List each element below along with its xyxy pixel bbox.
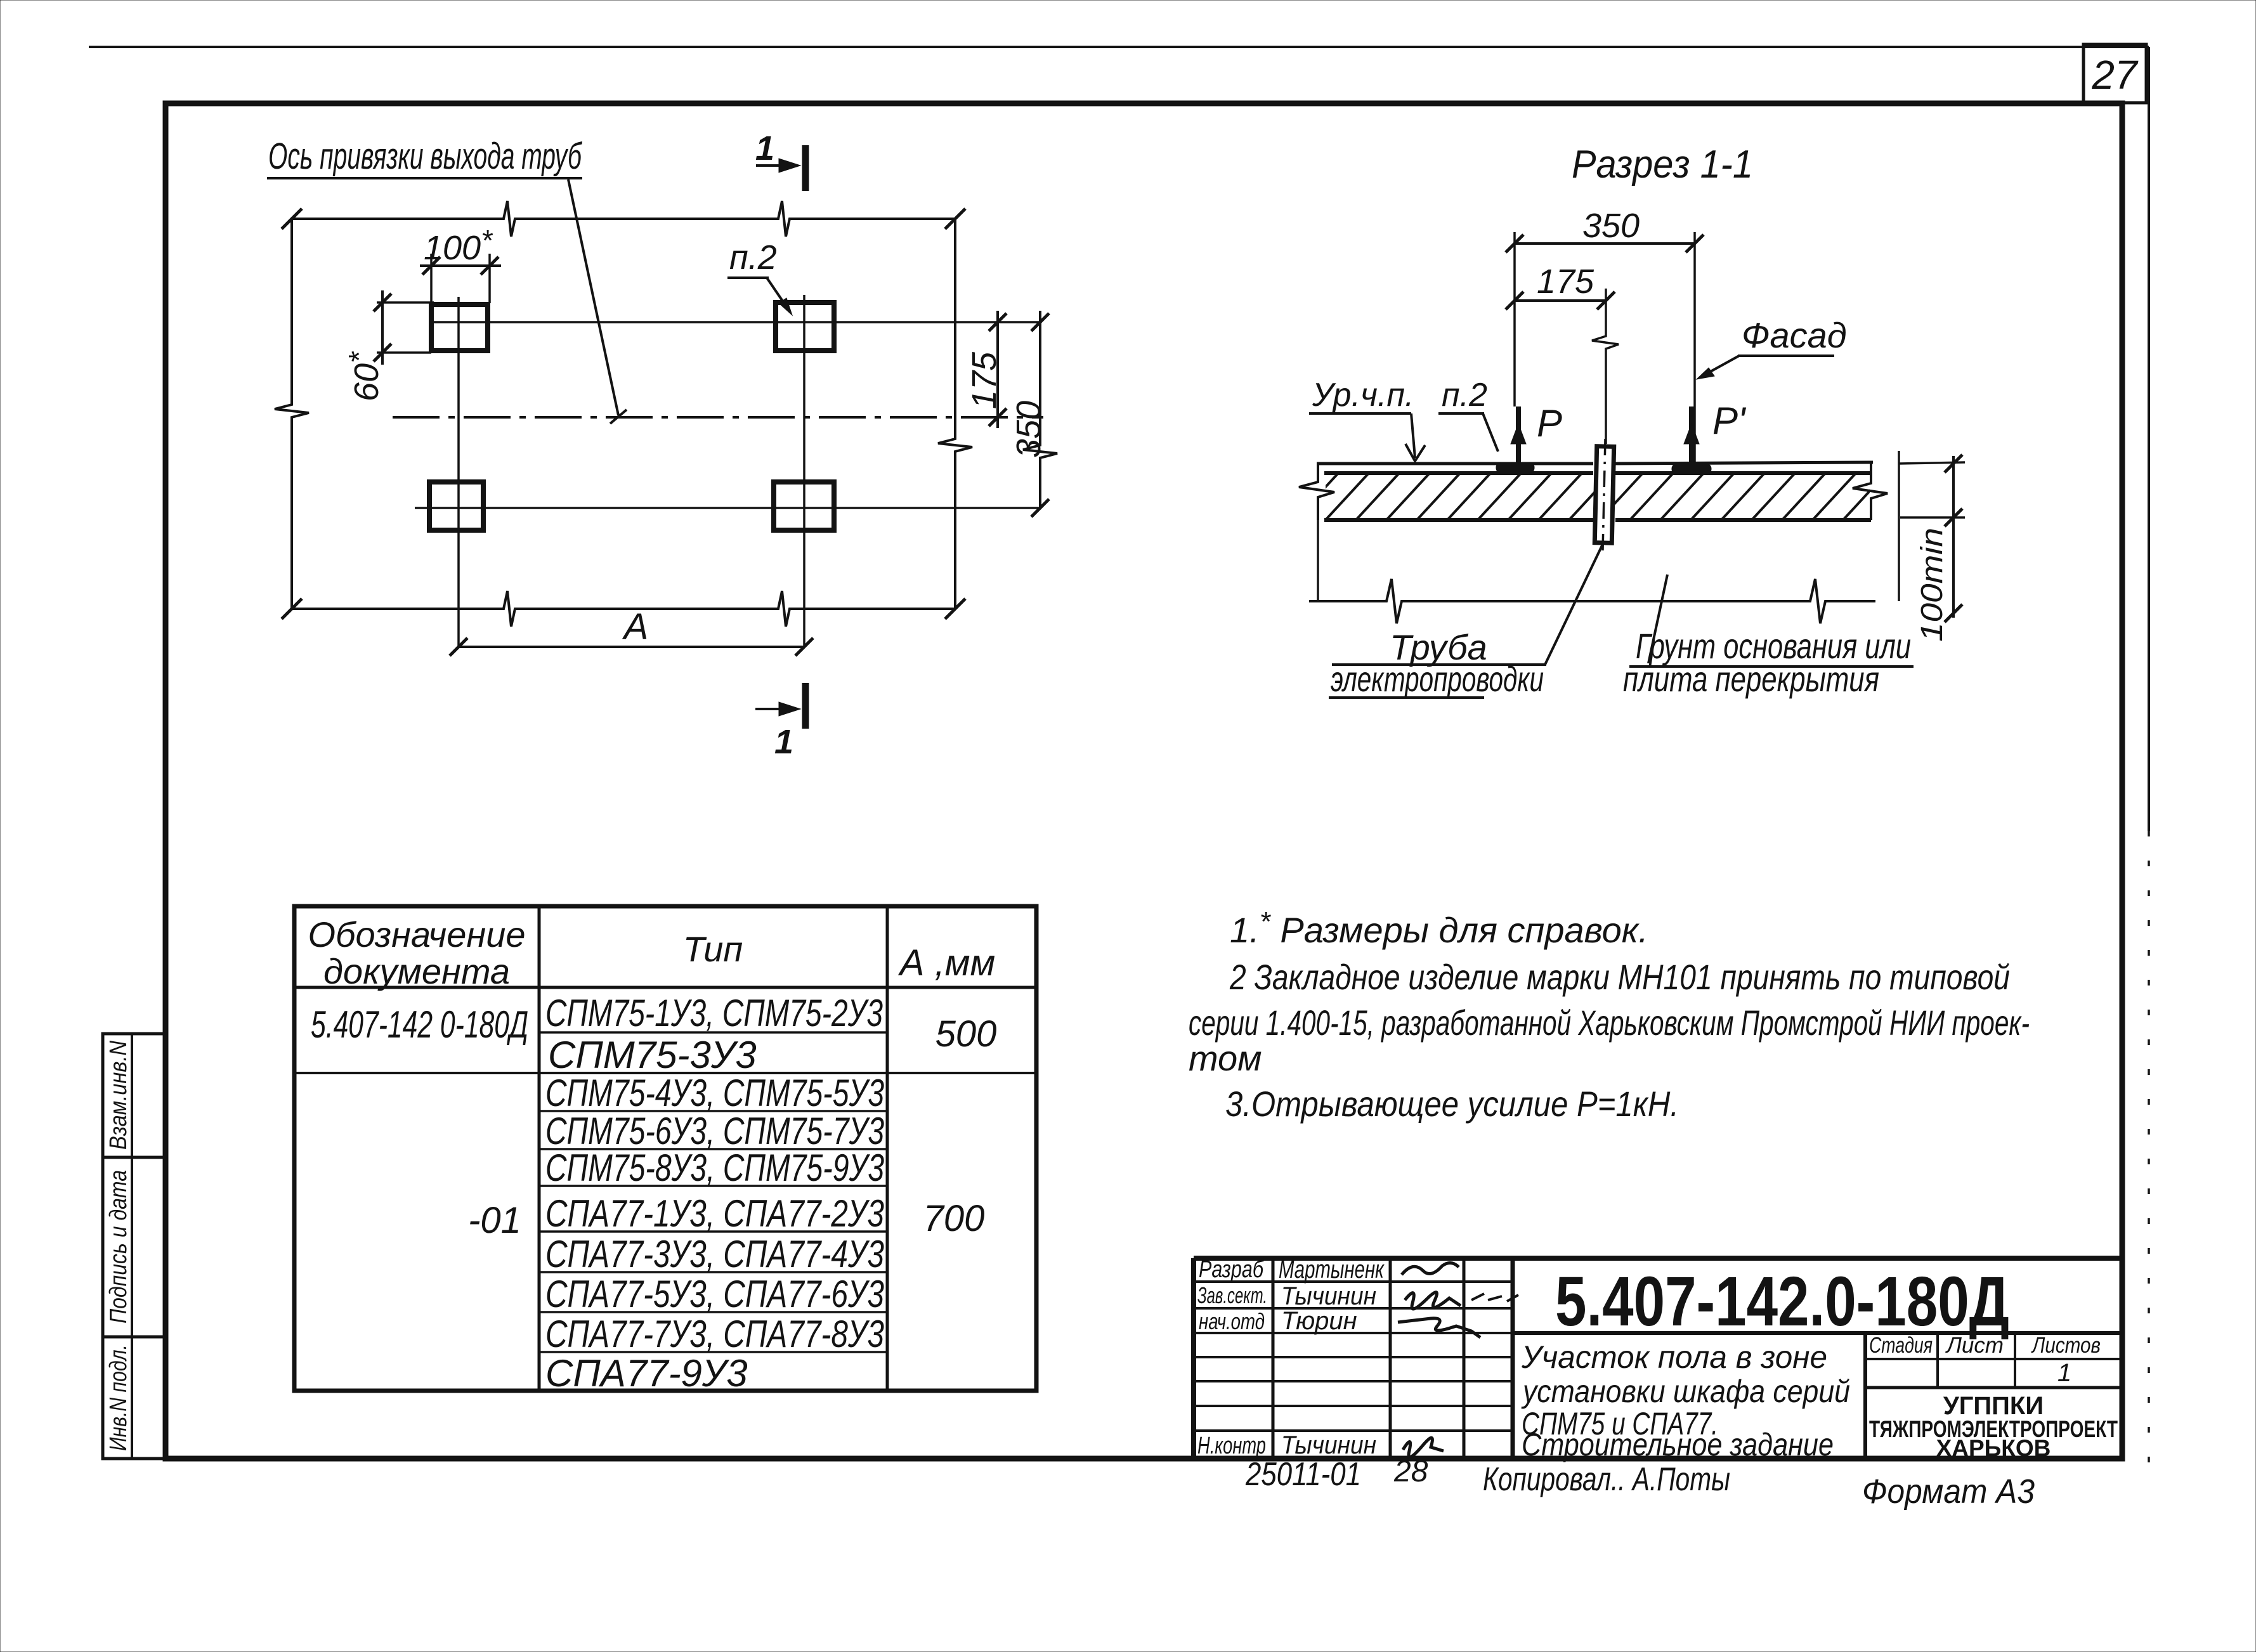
section mark 1 (bottom) (755, 683, 805, 761)
left column centre line (457, 297, 460, 647)
dimension 100* (420, 224, 501, 303)
svg-text:27: 27 (2091, 52, 2139, 98)
dimension 175 (section) (1506, 263, 1615, 309)
sheet right rule lower dashed part (2148, 831, 2150, 1464)
svg-text:100min: 100min (1915, 528, 1949, 642)
svg-text:Взам.инв.N: Взам.инв.N (105, 1041, 132, 1150)
svg-text:Строительное задание: Строительное задание (1522, 1427, 1834, 1462)
signature scribble 3 (1398, 1318, 1480, 1337)
svg-text:Ур.ч.п.: Ур.ч.п. (1312, 377, 1414, 413)
svg-text:Тип: Тип (683, 929, 743, 969)
svg-text:Тюрин: Тюрин (1281, 1307, 1357, 1335)
dimension 60* (342, 290, 434, 401)
leader from title to axis (568, 179, 618, 415)
left extension below slab (1317, 520, 1319, 601)
svg-text:3.Отрывающее усилие Р=1кН.: 3.Отрывающее усилие Р=1кН. (1225, 1084, 1679, 1124)
left margin stamp strip (103, 1034, 166, 1459)
right column centre line (803, 295, 805, 647)
dimension 100min (1899, 455, 1965, 642)
svg-text:плита перекрытия: плита перекрытия (1623, 659, 1879, 699)
signature scribble 1 (1402, 1263, 1459, 1275)
floor screed line (1324, 471, 1871, 475)
label п.2 (section) (1438, 377, 1498, 452)
svg-text:СПМ75-4У3, СПМ75-5У3: СПМ75-4У3, СПМ75-5У3 (545, 1072, 884, 1114)
svg-text:том: том (1189, 1038, 1262, 1078)
svg-text:Зав.сект.: Зав.сект. (1197, 1282, 1267, 1308)
svg-text:нач.отд: нач.отд (1199, 1308, 1265, 1334)
svg-text:СПМ75-8У3, СПМ75-9У3: СПМ75-8У3, СПМ75-9У3 (545, 1147, 884, 1189)
svg-text:СПА77-3У3, СПА77-4У3: СПА77-3У3, СПА77-4У3 (545, 1233, 884, 1275)
table row separator (500/700) (294, 1072, 1036, 1074)
svg-text:700: 700 (923, 1198, 985, 1239)
top boundary dimension line with breaks (282, 201, 965, 237)
svg-text:1.* Размеры для справок.: 1.* Размеры для справок. (1230, 906, 1648, 950)
title block border lines (1194, 1256, 2122, 1261)
floor top line (1317, 462, 1873, 464)
svg-text:Обозначение: Обозначение (308, 914, 525, 954)
svg-text:Тычинин: Тычинин (1281, 1282, 1376, 1310)
slab right broken edge (1853, 464, 1888, 520)
right boundary extension line with break (938, 219, 972, 609)
svg-text:175: 175 (965, 351, 1003, 409)
svg-text:Участок пола в зоне: Участок пола в зоне (1521, 1339, 1827, 1375)
svg-text:электропроводки: электропроводки (1331, 659, 1544, 699)
bottom row axis line (415, 507, 1040, 509)
svg-text:А: А (622, 606, 649, 647)
pipe axis extension with break (1592, 289, 1619, 444)
bottom boundary dimension line with breaks (282, 591, 965, 627)
svg-text:Р: Р (1537, 402, 1562, 445)
facade line (1693, 232, 1696, 462)
svg-text:Фасад: Фасад (1742, 315, 1847, 355)
svg-text:Подпись и дата: Подпись и дата (105, 1170, 132, 1324)
signature scribble 2 (1405, 1292, 1461, 1309)
slab bottom line (1324, 518, 1871, 522)
svg-text:Формат А3: Формат А3 (1862, 1473, 2035, 1511)
svg-text:СПА77-7У3, СПА77-8У3: СПА77-7У3, СПА77-8У3 (545, 1313, 884, 1355)
sheet right rule (2148, 47, 2150, 831)
svg-text:1: 1 (755, 129, 774, 167)
svg-text:п.2: п.2 (729, 238, 777, 276)
slab left broken edge (1299, 464, 1334, 520)
embedded plate left (MH101) (1496, 462, 1534, 473)
svg-text:Стадия: Стадия (1869, 1333, 1933, 1358)
svg-text:5.407-142 0-180Д: 5.407-142 0-180Д (311, 1003, 528, 1046)
table outer border (294, 906, 1036, 1391)
svg-text:Мартыненк: Мартыненк (1279, 1256, 1385, 1284)
svg-text:Разраб: Разраб (1199, 1256, 1264, 1283)
svg-text:1: 1 (774, 723, 793, 761)
dimension 350 (section) (1506, 207, 1704, 252)
svg-text:Ось привязки выхода труб: Ось привязки выхода труб (268, 136, 583, 177)
svg-text:установки шкафа серий: установки шкафа серий (1521, 1374, 1850, 1409)
svg-text:А ,мм: А ,мм (898, 942, 995, 984)
dimension 350 (plan) with break (1010, 311, 1057, 517)
svg-text:-01: -01 (468, 1200, 521, 1241)
svg-text:1: 1 (2057, 1359, 2071, 1387)
svg-text:СПА77-9У3: СПА77-9У3 (545, 1352, 748, 1395)
svg-text:175: 175 (1537, 263, 1594, 301)
svg-text:СПА77-1У3, СПА77-2У3: СПА77-1У3, СПА77-2У3 (545, 1192, 884, 1235)
svg-text:2 Закладное изделие марки М: 2 Закладное изделие марки МН101 принять … (1229, 957, 2010, 997)
signature scribble 4 (1403, 1438, 1444, 1457)
anchor plate plan bottom-right (774, 482, 834, 530)
svg-text:серии 1.400-15, разработанной: серии 1.400-15, разработанной Харьковски… (1189, 1003, 2030, 1043)
table column line (designation/type) (538, 906, 541, 1391)
svg-text:Инв.N подл.: Инв.N подл. (105, 1344, 132, 1451)
svg-text:ХАРЬКОВ: ХАРЬКОВ (1936, 1435, 2051, 1461)
left boundary extension line with break (275, 219, 309, 609)
page number box 27 (2083, 44, 2146, 103)
anchor plate plan top-right (776, 302, 834, 351)
conduit pipe through slab (1594, 439, 1614, 554)
svg-text:Н.контр: Н.контр (1197, 1433, 1266, 1459)
ground reference line with breaks (1309, 579, 1875, 623)
centre axis (dash-dot) (393, 416, 1043, 419)
anchor plate plan bottom-left (429, 482, 483, 530)
svg-text:Лист: Лист (1945, 1333, 2004, 1358)
top row axis line (431, 321, 1040, 323)
label Ур.ч.п. (1309, 377, 1425, 461)
force P arrow (left) (1511, 402, 1562, 465)
type column row rules (540, 1031, 887, 1034)
label Грунт основания или плита перекрытия (1623, 575, 1914, 699)
svg-text:28: 28 (1393, 1455, 1428, 1488)
svg-text:Копировал.. А.Поты: Копировал.. А.Поты (1483, 1461, 1730, 1498)
svg-text:документа: документа (323, 951, 510, 991)
svg-text:Разрез 1-1: Разрез 1-1 (1572, 143, 1753, 186)
svg-text:СПМ75-1У3, СПМ75-2У3: СПМ75-1У3, СПМ75-2У3 (545, 992, 883, 1034)
drawing frame (166, 103, 2122, 1459)
label Фасад (1697, 315, 1847, 379)
dimension 175 (plan) (965, 311, 1007, 428)
table column line (type/A-mm) (886, 906, 889, 1391)
dimension A (450, 606, 813, 656)
right extension line (1898, 451, 1900, 601)
svg-text:Листов: Листов (2031, 1333, 2101, 1358)
svg-text:Тычинин: Тычинин (1281, 1431, 1376, 1459)
sheet top rule (89, 46, 2149, 48)
anchor plate plan top-left (431, 304, 488, 351)
svg-text:СПМ75-6У3, СПМ75-7У3: СПМ75-6У3, СПМ75-7У3 (545, 1110, 884, 1152)
svg-text:п.2: п.2 (1442, 377, 1487, 413)
table header rule (294, 986, 1036, 989)
left extension line (anchor axis) (1513, 232, 1516, 406)
svg-text:Р': Р' (1712, 400, 1747, 442)
label Труба электропроводки (1329, 544, 1603, 699)
embedded plate right (MH101) (1672, 464, 1711, 474)
svg-text:СПМ75-3У3: СПМ75-3У3 (548, 1034, 757, 1076)
date scribble (1471, 1294, 1518, 1301)
svg-text:СПА77-5У3, СПА77-6У3: СПА77-5У3, СПА77-6У3 (545, 1273, 884, 1315)
svg-text:25011-01: 25011-01 (1245, 1456, 1361, 1493)
svg-text:5.407-142.0-180Д: 5.407-142.0-180Д (1555, 1263, 2009, 1341)
force P' arrow (right) (1684, 400, 1747, 465)
svg-text:350: 350 (1010, 401, 1048, 458)
label п.2 (plan) (727, 238, 792, 315)
svg-text:350: 350 (1582, 207, 1640, 245)
slab hatching (1294, 472, 1918, 521)
svg-text:500: 500 (936, 1013, 997, 1055)
section mark 1 (top) (755, 129, 805, 191)
